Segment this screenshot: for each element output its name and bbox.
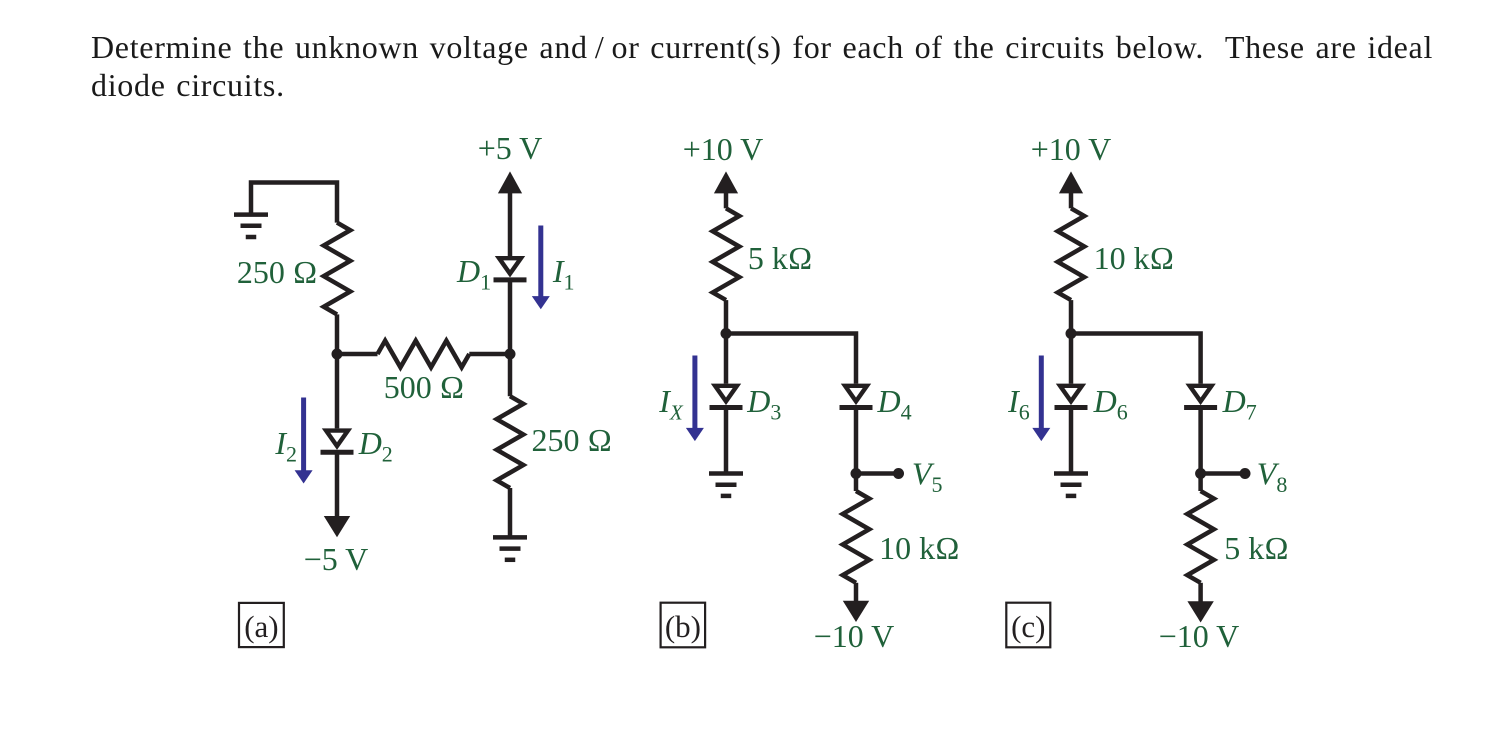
svg-text:D4: D4 — [877, 383, 912, 425]
wire: (a) node to 500ohm — [337, 352, 378, 357]
wire: (b) D4 to node V5 — [854, 408, 859, 474]
diode D1 — [494, 256, 527, 280]
svg-text:(c): (c) — [1011, 609, 1045, 644]
svg-text:I2: I2 — [274, 425, 297, 467]
problem statement paragraph — [91, 28, 1481, 104]
node (b) junction — [721, 328, 732, 339]
svg-text:10 kΩ: 10 kΩ — [879, 530, 960, 566]
box label (c) — [1006, 603, 1050, 648]
wire: (c) +10V to 10k resistor — [1069, 190, 1074, 208]
svg-text:V5: V5 — [912, 456, 943, 498]
wire: (b) resistor to -10V terminal — [854, 583, 859, 603]
node (c) junction — [1066, 328, 1077, 339]
node V5 junction — [851, 468, 862, 479]
ground (c) — [1054, 474, 1088, 496]
wire: (a) left resistor to node — [335, 314, 340, 354]
box label (a) — [239, 603, 284, 647]
wire: (a) D1 to right node — [508, 280, 513, 354]
ground (b) — [709, 474, 743, 496]
ground (a) bottom-right — [493, 537, 527, 559]
wire: (a) top-left L from ground to 250ohm resistor — [249, 180, 337, 222]
svg-text:5 kΩ: 5 kΩ — [748, 240, 813, 276]
svg-text:(a): (a) — [244, 609, 278, 644]
arrowhead -5V terminal (a) — [324, 516, 350, 537]
arrowhead -10V terminal (b) — [843, 601, 869, 622]
diode D2 — [321, 428, 354, 452]
svg-text:D3: D3 — [746, 383, 781, 425]
terminal dot V5 — [893, 468, 904, 479]
svg-text:(b): (b) — [665, 609, 701, 644]
svg-text:D6: D6 — [1093, 383, 1128, 425]
svg-text:+10 V: +10 V — [683, 131, 764, 167]
wire: (a) right node to 250ohm — [508, 354, 513, 396]
svg-text:+10 V: +10 V — [1031, 131, 1112, 167]
wire: (c) node to right branch and down to D7 — [1071, 334, 1201, 384]
wire: (b) D3 to ground — [724, 408, 729, 474]
wire: (c) resistor to -10V terminal — [1198, 583, 1203, 603]
resistor 5kohm (c) — [1187, 491, 1214, 583]
wire: (b) +10V to 5k resistor — [724, 190, 729, 208]
svg-text:I1: I1 — [552, 253, 575, 295]
wire: (a) 500ohm to right node — [469, 352, 510, 357]
arrowhead +5V supply (a) — [498, 171, 522, 193]
resistor 250ohm (a) right — [497, 396, 524, 488]
svg-text:250 Ω: 250 Ω — [237, 254, 318, 290]
wire: (b) V5 stub — [856, 471, 899, 476]
resistor 250ohm (a) left — [324, 223, 351, 315]
current arrow I6 — [1032, 356, 1050, 442]
diode D3 — [710, 384, 743, 408]
node (a) right junction — [505, 349, 516, 360]
wire: (c) V8 to 5k resistor — [1198, 474, 1203, 492]
current arrow I2 — [295, 398, 313, 484]
wire: (b) V5 to 10k resistor — [854, 474, 859, 492]
box label (b) — [661, 603, 706, 648]
arrowhead +10V supply (b) — [714, 171, 738, 193]
diode D4 — [840, 384, 873, 408]
svg-text:5 kΩ: 5 kΩ — [1224, 530, 1289, 566]
wire: (c) D7 to node V8 — [1198, 408, 1203, 474]
node (a) left junction — [332, 349, 343, 360]
current arrow IX — [686, 356, 704, 442]
wire: (b) node to right branch and down to D4 — [726, 334, 856, 384]
diode D6 — [1055, 384, 1088, 408]
svg-text:−10 V: −10 V — [814, 618, 895, 654]
svg-text:D2: D2 — [358, 425, 393, 467]
wire: (a) right resistor to ground — [508, 488, 513, 537]
terminal dot V8 — [1240, 468, 1251, 479]
wire: (c) D6 to ground — [1069, 408, 1074, 474]
svg-text:10 kΩ: 10 kΩ — [1094, 240, 1175, 276]
svg-text:250 Ω: 250 Ω — [532, 422, 613, 458]
svg-text:500 Ω: 500 Ω — [384, 369, 465, 405]
resistor 5kohm (b) — [713, 208, 740, 300]
svg-text:V8: V8 — [1257, 456, 1288, 498]
svg-text:−5 V: −5 V — [304, 541, 369, 577]
wire: (c) V8 stub — [1201, 471, 1245, 476]
wire: (a) +5V to diode D1 — [508, 190, 513, 256]
svg-text:I6: I6 — [1007, 383, 1030, 425]
wire: (a) D2 to -5V terminal — [335, 452, 340, 517]
ground (a) top-left — [234, 215, 268, 237]
wire: (c) resistor to node — [1069, 300, 1074, 333]
wire: (a) left node to diode D2 — [335, 354, 340, 428]
svg-text:D1: D1 — [456, 253, 491, 295]
wire: (b) node to diode D3 — [724, 334, 729, 384]
svg-text:D7: D7 — [1222, 383, 1257, 425]
node V8 junction — [1195, 468, 1206, 479]
wire: (b) resistor to node — [724, 300, 729, 333]
resistor 500ohm (a) middle — [378, 341, 470, 368]
resistor 10kohm (b) — [843, 491, 870, 583]
arrowhead +10V supply (c) — [1059, 171, 1083, 193]
svg-text:+5 V: +5 V — [478, 130, 543, 166]
resistor 10kohm (c) — [1058, 208, 1085, 300]
diode D7 — [1184, 384, 1217, 408]
arrowhead -10V terminal (c) — [1187, 601, 1213, 622]
current arrow I1 — [532, 226, 550, 310]
svg-text:−10 V: −10 V — [1159, 618, 1240, 654]
wire: (c) node to diode D6 — [1069, 334, 1074, 384]
svg-text:IX: IX — [658, 383, 684, 425]
